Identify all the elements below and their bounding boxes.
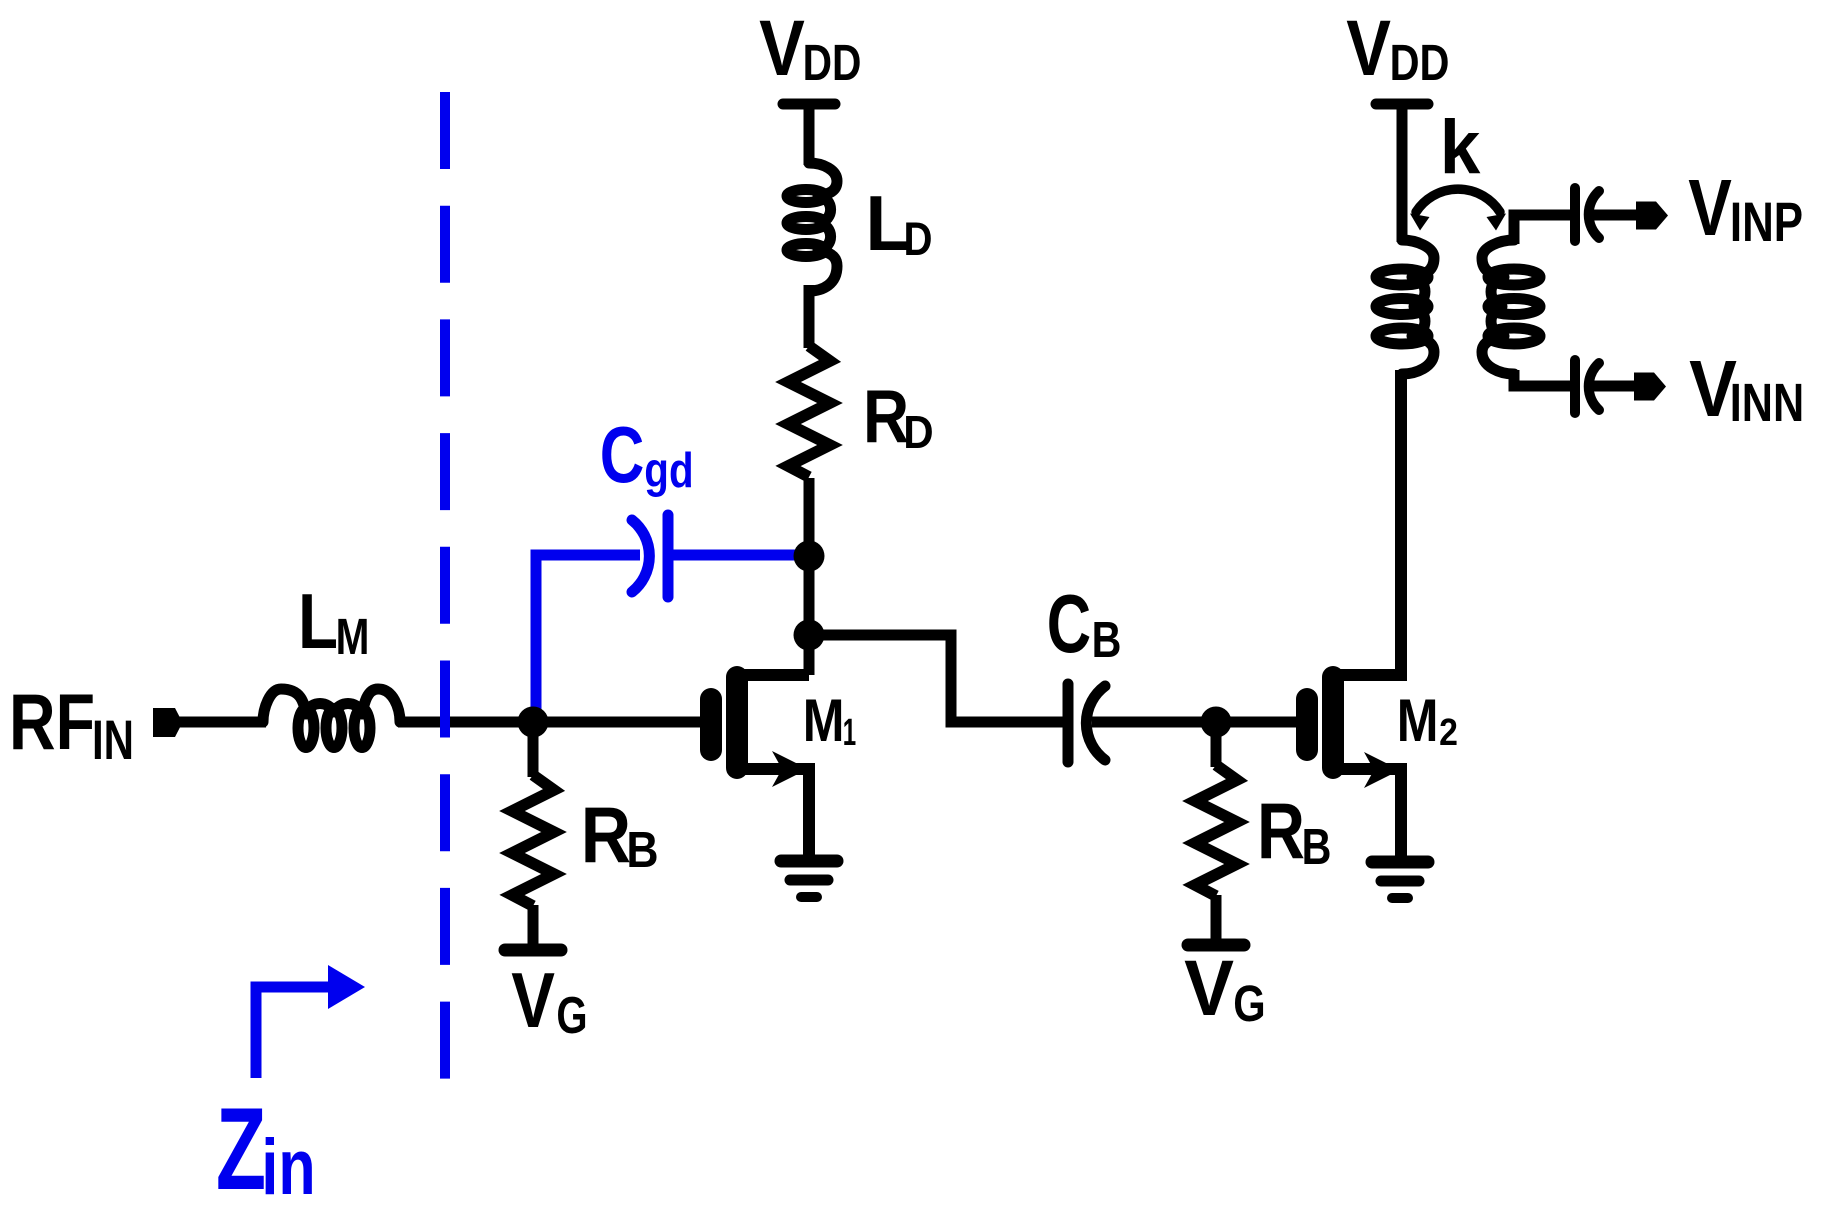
- transistor M1 source arrow: [772, 751, 808, 787]
- svg-text:B: B: [1092, 611, 1122, 668]
- wire secondary bottom to C4: [1514, 370, 1570, 386]
- supply label V_DD (right): [1346, 3, 1449, 92]
- supply label V_DD (left): [759, 3, 861, 92]
- svg-text:R: R: [1257, 786, 1305, 875]
- svg-text:V: V: [1346, 3, 1391, 92]
- capacitor C3 (V_INP coupling): [1575, 188, 1599, 241]
- capacitor C1 C_gd: [632, 515, 668, 597]
- transformer primary winding L3: [1376, 240, 1434, 374]
- transistor M1 channel bar: [726, 677, 748, 768]
- supply bar V_DD right: [1376, 99, 1428, 110]
- inductor L1 L_M: [263, 689, 400, 748]
- transistor M2 source arrow: [1364, 752, 1400, 788]
- transistor M2 label: [1397, 687, 1458, 754]
- wire R_B1 to V_G1: [528, 905, 539, 944]
- transistor M2 source lead: [1333, 769, 1401, 858]
- node B junction (C_gd / drain column): [794, 541, 825, 572]
- svg-text:V: V: [1184, 943, 1234, 1032]
- transistor M2 channel bar: [1322, 677, 1344, 768]
- node label RF_IN: [9, 677, 134, 771]
- transistor M2 drain lead: [1333, 370, 1401, 675]
- inductor L2 L_D: [787, 163, 837, 291]
- transistor M1 gate bar: [700, 699, 722, 750]
- node C junction (drain / output step wire): [794, 620, 825, 651]
- wire node A to R_B1: [528, 722, 539, 777]
- svg-text:Z: Z: [216, 1083, 266, 1211]
- svg-text:INN: INN: [1730, 373, 1804, 433]
- wire node D to R_B2: [1211, 722, 1222, 767]
- svg-text:B: B: [626, 821, 658, 878]
- transformer secondary winding L4: [1482, 240, 1540, 374]
- svg-text:C: C: [600, 410, 645, 499]
- impedance arrow Z_in: [256, 965, 365, 1078]
- wire C_gd right plate to drain node B: [668, 550, 809, 561]
- inductor L1 label L_M: [298, 577, 369, 665]
- transistor M1 label: [803, 687, 857, 754]
- capacitor C2 label C_B: [1047, 577, 1122, 670]
- resistor R3 R_B (stage 2): [1195, 765, 1237, 896]
- wire L_D to R_D: [804, 285, 815, 348]
- svg-text:RF: RF: [9, 677, 95, 766]
- svg-text:G: G: [1233, 975, 1265, 1032]
- svg-text:k: k: [1440, 105, 1481, 190]
- svg-text:L: L: [298, 577, 338, 665]
- svg-text:D: D: [904, 212, 933, 265]
- impedance label Z_in: [216, 1083, 316, 1211]
- svg-text:V: V: [759, 3, 805, 92]
- supply label V_G2: [1184, 943, 1266, 1032]
- svg-text:gd: gd: [644, 444, 693, 498]
- supply bar V_G1: [505, 944, 561, 957]
- wire L_M to gate node A: [398, 717, 705, 728]
- wire secondary top to C3: [1514, 215, 1570, 244]
- coupling arrow k: [1410, 189, 1506, 230]
- transistor M2 gate bar: [1296, 699, 1318, 750]
- svg-text:V: V: [1688, 163, 1732, 252]
- wire node C to C_B: [809, 635, 1063, 722]
- svg-text:B: B: [1302, 818, 1332, 875]
- wire R_D to drain of M1: [804, 478, 815, 675]
- wire C4 to V_INN terminal: [1593, 381, 1640, 392]
- wire V_DD to transformer primary: [1397, 100, 1408, 242]
- svg-text:M: M: [803, 687, 845, 754]
- resistor R2 R_D: [788, 346, 830, 477]
- svg-text:C: C: [1047, 577, 1091, 670]
- wire V_DD to L_D: [804, 100, 815, 165]
- wire R_B2 to V_G2: [1211, 895, 1222, 941]
- svg-text:DD: DD: [803, 34, 862, 91]
- svg-text:in: in: [261, 1122, 315, 1211]
- supply bar V_DD left: [783, 99, 835, 110]
- coupling label k: [1440, 105, 1481, 190]
- ground symbol (M1 source): [781, 861, 837, 897]
- output terminal V_INN: [1634, 373, 1666, 401]
- capacitor C4 (V_INN coupling): [1575, 360, 1599, 413]
- svg-text:V: V: [511, 956, 555, 1044]
- wire C3 to V_INP terminal: [1593, 210, 1640, 221]
- wire C_gd left leg (gate to cap): [536, 555, 640, 722]
- svg-text:DD: DD: [1390, 34, 1450, 91]
- svg-text:INP: INP: [1730, 190, 1803, 253]
- resistor R1 label R_B: [581, 790, 659, 879]
- svg-text:M: M: [1397, 687, 1439, 754]
- ground symbol (M2 source): [1372, 862, 1428, 898]
- input terminal RF_IN: [153, 708, 183, 737]
- svg-text:G: G: [556, 987, 587, 1045]
- supply bar V_G2: [1188, 939, 1244, 952]
- capacitor C2 C_B: [1068, 684, 1105, 762]
- resistor R1 R_B (stage 1): [512, 775, 554, 906]
- resistor R3 label R_B: [1257, 786, 1331, 875]
- svg-text:1: 1: [843, 712, 856, 754]
- svg-text:IN: IN: [92, 708, 134, 771]
- transistor M1 source lead: [737, 769, 809, 858]
- wire C_B to M2 gate node D: [1092, 717, 1302, 728]
- transistor M1 drain lead: [737, 669, 809, 681]
- reference plane dashed line: [440, 92, 450, 1079]
- svg-text:R: R: [863, 374, 909, 458]
- inductor L2 label L_D: [865, 179, 932, 267]
- node A junction (M1 gate / R_B / C_gd): [518, 707, 549, 738]
- node label V_INN: [1689, 344, 1804, 433]
- capacitor C1 label C_gd: [600, 410, 694, 499]
- supply label V_G1: [511, 956, 587, 1045]
- svg-text:2: 2: [1439, 712, 1458, 754]
- node D junction (M2 gate / R_B2): [1201, 707, 1232, 738]
- resistor R2 label R_D: [863, 374, 934, 458]
- svg-text:R: R: [581, 790, 631, 879]
- node label V_INP: [1688, 163, 1803, 253]
- svg-text:M: M: [336, 608, 370, 665]
- wire input to L_M: [179, 717, 266, 728]
- output terminal V_INP: [1636, 202, 1668, 230]
- svg-text:D: D: [903, 406, 933, 458]
